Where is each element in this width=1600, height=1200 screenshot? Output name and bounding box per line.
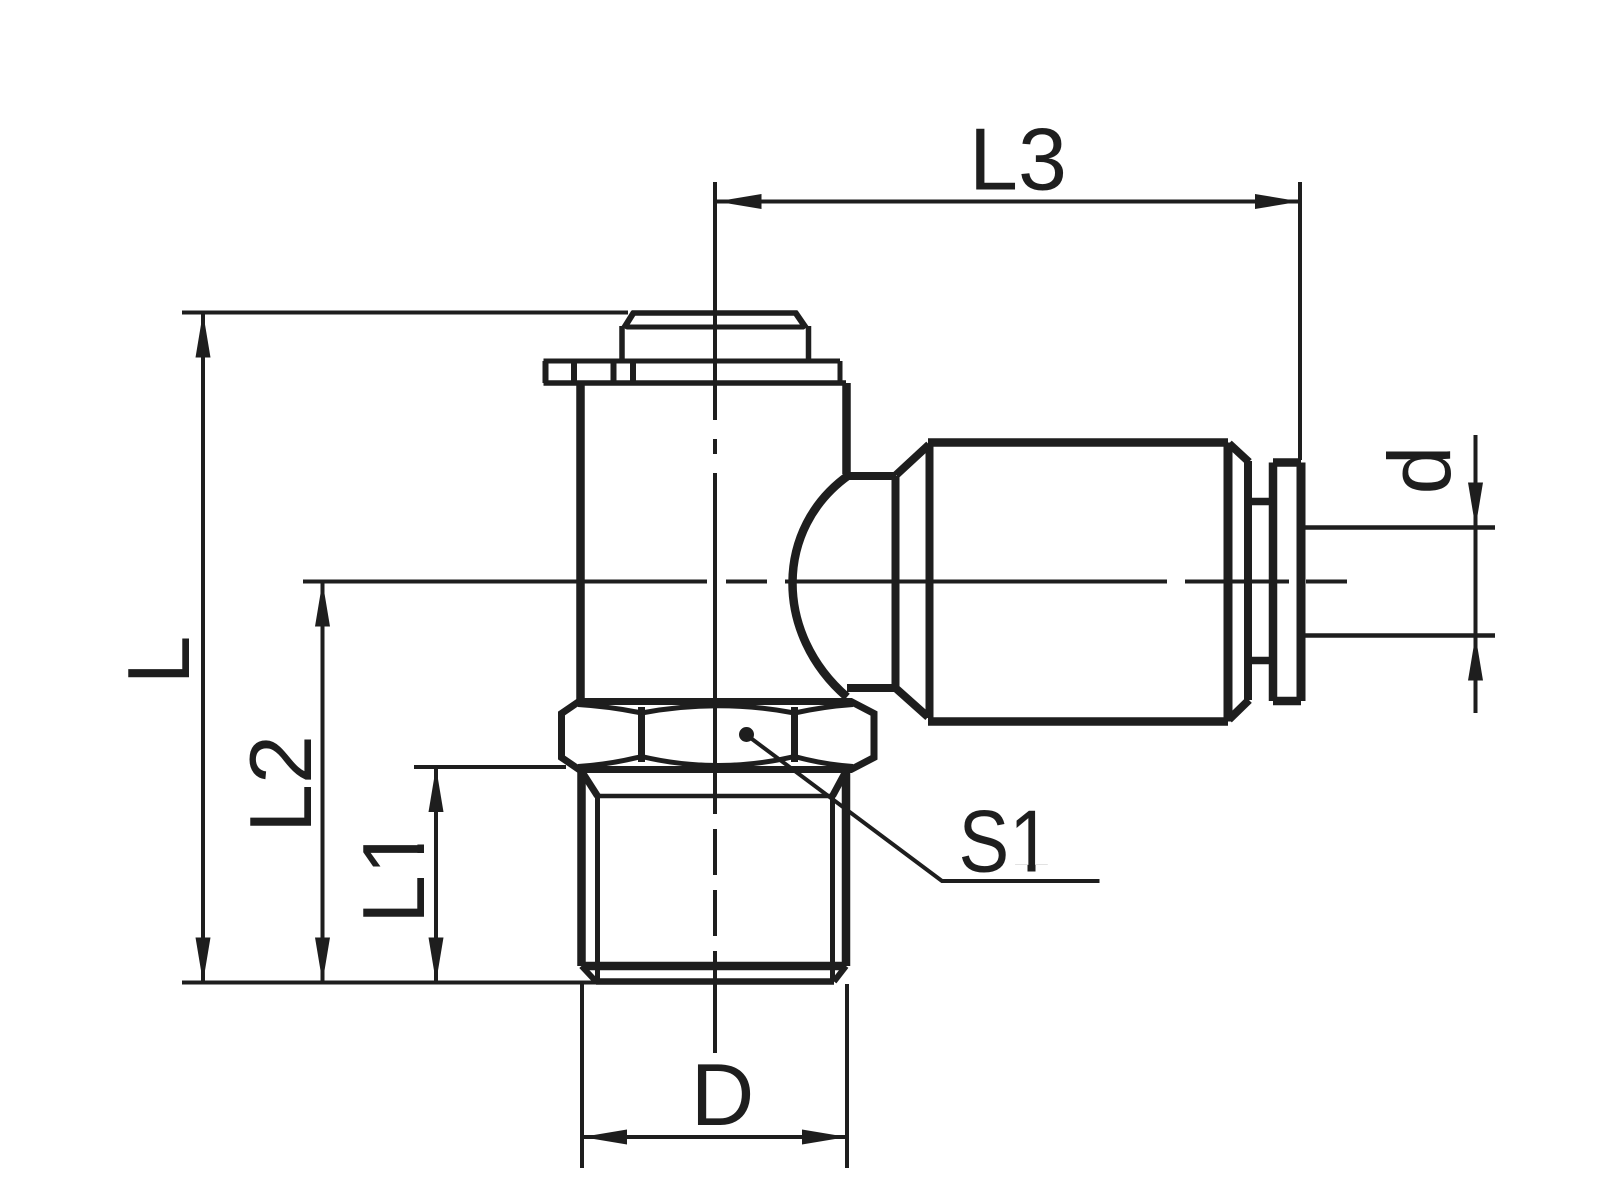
dimension D left arrow: [582, 1130, 627, 1145]
cap right edge: [806, 326, 812, 361]
svg-text:d: d: [1370, 446, 1469, 495]
cap right chamfer: [795, 312, 806, 328]
dimension L1 line: [434, 767, 438, 983]
dimension L1 bottom arrow: [429, 938, 444, 983]
tube bottom edge: [1303, 633, 1495, 638]
thread top left chamfer: [582, 771, 598, 796]
cap left edge: [619, 326, 625, 361]
serif trim patches for digit 1 glyphs: [1013, 865, 1028, 874]
thread inner top edge: [598, 794, 833, 799]
cap left chamfer: [624, 312, 634, 328]
barrel right edge: [1224, 443, 1233, 722]
thread inner right edge: [830, 796, 835, 982]
neck face edge: [1244, 461, 1252, 700]
barrel left edge: [926, 444, 934, 718]
dimension L3 right extension line: [1298, 182, 1302, 460]
body right edge: [842, 383, 851, 474]
dimension L2 top arrow: [315, 582, 330, 627]
tube top edge: [1303, 525, 1495, 530]
svg-text:L3: L3: [969, 110, 1067, 209]
dimension D left extension line: [580, 984, 584, 1168]
flange strip divider 1: [571, 362, 577, 382]
hex nut right face top arc: [795, 705, 854, 714]
hex nut divider 2: [791, 707, 798, 762]
neck bottom chamfer: [1229, 700, 1249, 720]
cap top edge: [632, 310, 797, 316]
hex nut right face bottom arc: [795, 757, 854, 767]
dimension L line: [201, 313, 205, 983]
neck step top: [1248, 498, 1273, 506]
dimension d line: [1474, 435, 1478, 713]
hex nut left face bottom arc: [578, 757, 642, 767]
cap inner line: [627, 325, 803, 330]
svg-text:D: D: [691, 1045, 755, 1144]
dimension L1 top arrow: [429, 767, 444, 812]
hex nut outline: [562, 702, 875, 770]
cone narrow edge: [892, 476, 900, 688]
dimension L2 line: [321, 582, 325, 983]
collar bottom edge: [1273, 697, 1301, 706]
collar top edge: [1273, 458, 1301, 467]
dimension L top extension line: [182, 311, 628, 315]
flange strip top edge: [544, 359, 841, 364]
svg-text:L: L: [109, 636, 208, 685]
body left edge: [576, 383, 585, 704]
cone bottom slant: [896, 688, 929, 717]
collar left edge: [1269, 463, 1278, 702]
dome top shelf: [847, 472, 897, 480]
hex nut middle face top arc: [642, 706, 795, 713]
S1 leader dot: [739, 727, 754, 742]
hex nut left face top arc: [578, 705, 642, 714]
dimension L2 bottom arrow: [315, 938, 330, 983]
dimension L top arrow: [196, 313, 211, 358]
dimension bottom extension line: [182, 981, 600, 985]
thread bottom inner edge: [596, 978, 834, 985]
flange strip divider 2: [611, 362, 617, 382]
dimension L bottom arrow: [196, 938, 211, 983]
flange strip divider 3: [630, 362, 636, 382]
thread inner left edge: [595, 796, 600, 982]
dimension D right extension line: [845, 984, 849, 1168]
dimension L1 top extension line: [414, 765, 566, 769]
barrel bottom edge: [928, 717, 1228, 726]
dimension D right arrow: [802, 1130, 847, 1145]
horizontal centerline: [303, 580, 1347, 584]
thread bottom left chamfer: [582, 966, 597, 982]
dimension L3 line: [717, 200, 1301, 204]
dimension D line: [582, 1135, 847, 1139]
svg-text:S1: S1: [959, 792, 1052, 891]
dome bottom shelf: [847, 684, 896, 692]
neck top chamfer: [1229, 444, 1249, 463]
cone top slant: [896, 445, 929, 476]
dome arc: [792, 475, 849, 697]
dimension d bottom arrow: [1468, 636, 1483, 681]
flange strip bottom edge: [544, 380, 847, 386]
thread outer left edge: [577, 770, 586, 966]
hex nut divider 1: [638, 707, 645, 762]
dimension L3 left arrow: [717, 194, 762, 209]
hex nut middle face bottom arc: [642, 757, 795, 766]
barrel top edge: [928, 438, 1228, 447]
collar right edge: [1297, 463, 1306, 702]
dimension d top arrow: [1468, 483, 1483, 528]
svg-text:L2: L2: [231, 735, 330, 833]
thread bottom right chamfer: [834, 966, 846, 982]
svg-text:L1: L1: [344, 826, 443, 924]
S1 leader line: [748, 736, 1100, 881]
flange strip right step: [838, 361, 843, 383]
thread bottom outer edge: [582, 962, 847, 971]
flange strip left end: [543, 361, 549, 383]
neck step bottom: [1248, 657, 1273, 665]
thread outer right edge: [842, 770, 851, 966]
vertical centerline: [713, 182, 717, 1053]
dimension L3 right arrow: [1255, 194, 1300, 209]
thread top right chamfer: [833, 771, 847, 796]
